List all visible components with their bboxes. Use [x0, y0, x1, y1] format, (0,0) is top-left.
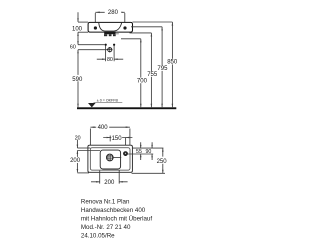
svg-text:150: 150 — [112, 136, 123, 142]
left bolt dot — [105, 44, 107, 46]
dim 150 tick at drain axis — [109, 136, 111, 142]
dim 700 label — [137, 78, 148, 84]
svg-text:Mod.-Nr. 27 21 40: Mod.-Nr. 27 21 40 — [81, 224, 131, 231]
svg-text:55: 55 — [136, 149, 142, 155]
trap centre line — [78, 49, 108, 51]
svg-text:80: 80 — [107, 57, 113, 63]
dim 700 line — [140, 39, 142, 107]
dim 200 bottom line — [91, 181, 128, 183]
floor line — [77, 107, 176, 109]
svg-text:90: 90 — [145, 149, 151, 155]
basin front elevation outline — [88, 22, 132, 32]
right bolt dot — [113, 44, 115, 46]
dim 80 line with outside arrows — [97, 58, 123, 60]
svg-text:280: 280 — [108, 10, 119, 16]
dim 150 line — [110, 137, 125, 139]
plan inner rim — [90, 148, 130, 170]
svg-text:60: 60 — [70, 44, 76, 50]
bowl top extension left — [77, 150, 100, 152]
svg-text:± 0 = OKFFB: ± 0 = OKFFB — [97, 99, 119, 103]
bottom extension left — [77, 172, 89, 174]
dim 755 line — [150, 33, 152, 107]
bottom right extension line — [132, 172, 165, 174]
svg-text:850: 850 — [167, 60, 178, 66]
svg-text:20: 20 — [75, 135, 81, 141]
plan outer rim — [88, 145, 132, 172]
title text block — [81, 199, 152, 240]
dim 280 extension lines — [95, 13, 125, 26]
drain grate — [106, 154, 113, 161]
extension line basin top left — [78, 21, 88, 23]
dim 400 arrows — [90, 126, 129, 128]
svg-text:400: 400 — [98, 125, 109, 131]
svg-text:mit Hahnloch mit Überlauf: mit Hahnloch mit Überlauf — [81, 215, 152, 222]
right extension line 700 — [121, 38, 141, 40]
svg-text:200: 200 — [70, 158, 81, 164]
dim 100 label — [72, 25, 83, 31]
svg-text:Handwaschbecken 400: Handwaschbecken 400 — [81, 207, 146, 214]
right extension line 755 (basin bottom) — [130, 32, 152, 34]
trap outlet circle — [107, 47, 112, 52]
right fixing hole — [123, 26, 126, 29]
svg-text:755: 755 — [147, 72, 158, 78]
dim 850 line — [171, 22, 173, 107]
tap centre extension line right — [128, 153, 154, 155]
dim 150 extension to tap hole — [125, 138, 127, 152]
svg-text:24.10.05/Re: 24.10.05/Re — [81, 232, 115, 239]
dim 400 line — [90, 126, 129, 128]
right extension line 795 (fixing holes) — [131, 26, 162, 28]
ledge extension line right — [132, 147, 163, 149]
dim 280 line — [95, 11, 125, 13]
dim 150 outside arrows — [103, 137, 132, 139]
dim 400 extension lines — [90, 129, 129, 149]
fixing bolts line — [78, 44, 105, 46]
ledge extension left — [77, 147, 90, 149]
svg-text:795: 795 — [157, 66, 168, 72]
svg-text:100: 100 — [72, 26, 83, 32]
dim 755 label — [147, 71, 158, 77]
svg-text:Renova Nr.1 Plan: Renova Nr.1 Plan — [81, 199, 130, 206]
right dim arrows — [140, 22, 173, 107]
left dim column arrows — [77, 18, 79, 107]
dim 850 label — [167, 59, 178, 65]
floor level underline — [94, 101, 123, 103]
dim 80 label — [106, 56, 113, 61]
svg-text:590: 590 — [72, 77, 83, 83]
dim 20 line — [76, 140, 78, 148]
left dim column line segments — [77, 12, 79, 107]
floor level triangle — [88, 103, 96, 107]
plan bowl — [100, 150, 120, 169]
extension line basin bottom left — [78, 31, 88, 33]
basin bowl front arc — [99, 23, 122, 31]
right extension line 850 (basin top) — [133, 21, 173, 23]
dim 200 left line — [76, 151, 78, 173]
drain centre line to bowl edge — [113, 157, 121, 159]
dim 590 label — [71, 75, 83, 81]
dim 80 extension lines — [106, 45, 115, 61]
dim 200 bottom extension lines — [100, 170, 120, 183]
tap hole — [123, 152, 127, 156]
dim 200 left label — [69, 157, 80, 163]
dim 280 arrows — [95, 12, 125, 14]
dim 280 label — [105, 8, 122, 14]
left fixing hole — [94, 26, 97, 29]
dim 90 arrows — [151, 142, 153, 160]
dim 795 line — [161, 27, 163, 107]
dim 55 arrows — [140, 142, 142, 160]
svg-text:200: 200 — [104, 180, 115, 186]
svg-text:700: 700 — [137, 78, 148, 84]
dim 795 label — [157, 65, 168, 71]
drain trap tabs under basin — [104, 32, 119, 36]
svg-text:250: 250 — [157, 159, 168, 165]
dim 250 line — [162, 148, 164, 173]
